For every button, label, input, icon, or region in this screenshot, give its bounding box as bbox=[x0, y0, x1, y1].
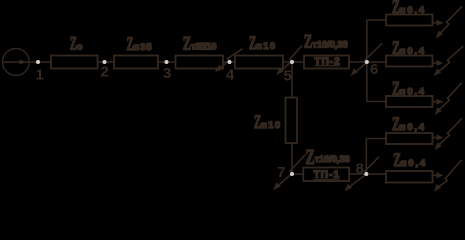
node 6 bbox=[365, 60, 379, 78]
svg-text:2: 2 bbox=[101, 64, 109, 81]
load block D bbox=[386, 133, 433, 144]
short-circuit bolt node 8 bbox=[345, 157, 380, 192]
svg-text:3: 3 bbox=[163, 65, 171, 82]
svg-text:8: 8 bbox=[356, 161, 364, 178]
load bolt C bbox=[434, 83, 461, 115]
branch stub D bbox=[366, 138, 386, 140]
short-circuit bolt node 7 bbox=[273, 155, 305, 191]
vertical wire node 5 down bbox=[291, 62, 293, 98]
label TP-2 bbox=[315, 56, 341, 67]
source G circle bbox=[3, 49, 30, 76]
svg-text:6: 6 bbox=[370, 61, 378, 78]
vertical wire node 8 branch bbox=[365, 139, 367, 175]
load bolt E bbox=[434, 160, 462, 192]
node 3 bbox=[163, 60, 171, 82]
vertical wire node 6 branches bbox=[366, 20, 368, 102]
arrow after block D bbox=[433, 135, 444, 141]
node 4 bbox=[226, 60, 235, 84]
substation box TP-2 bbox=[304, 56, 349, 69]
node 5 bbox=[284, 60, 295, 85]
substation box TP-1 bbox=[303, 168, 349, 182]
branch stub C bbox=[367, 101, 386, 103]
short-circuit bolt node 6 bbox=[350, 43, 382, 76]
resistor block Zl10 bbox=[235, 56, 283, 69]
load block A bbox=[386, 15, 433, 26]
svg-text:1: 1 bbox=[36, 67, 44, 84]
wire block Zt35/10 to block Zl10 bbox=[223, 61, 235, 63]
wire block Zc to block Zl35 bbox=[98, 61, 115, 63]
svg-text:4: 4 bbox=[226, 67, 235, 84]
node 8 bbox=[356, 161, 369, 178]
svg-text:7: 7 bbox=[277, 164, 285, 181]
node 1 bbox=[36, 60, 44, 84]
resistor block Zl35 bbox=[114, 56, 158, 69]
wire circle to block Zc bbox=[29, 61, 51, 63]
load block C bbox=[386, 96, 433, 107]
wire block Zl10 to TP-2 bbox=[283, 61, 304, 63]
load bolt D bbox=[434, 118, 461, 150]
vertical line block Zl10-2 bbox=[286, 98, 298, 144]
branch stub A bbox=[367, 19, 386, 21]
load bolt B bbox=[434, 46, 464, 76]
resistor block Zc bbox=[51, 56, 98, 69]
node 2 bbox=[101, 60, 109, 81]
transformer block Zt35/10 bbox=[176, 56, 224, 69]
load block E bbox=[386, 171, 433, 183]
label TP-1 bbox=[314, 169, 340, 180]
wire node 7 to TP-1 bbox=[292, 173, 303, 175]
arrow after block A bbox=[433, 20, 444, 26]
arrow after block B bbox=[433, 60, 444, 66]
svg-text:5: 5 bbox=[284, 68, 292, 85]
arrow after block C bbox=[433, 99, 444, 105]
short-circuit bolt node 4 bbox=[215, 49, 243, 72]
load block B bbox=[386, 56, 433, 67]
source arrow bbox=[20, 60, 27, 65]
node 7 bbox=[277, 164, 294, 181]
wire TP-1 to node 8 bbox=[349, 173, 386, 175]
wire block Zl35 to block Zt35/10 bbox=[158, 61, 176, 63]
short-circuit bolt node 5 bbox=[277, 46, 303, 76]
wire vertical block to node 7 bbox=[291, 143, 293, 174]
load bolt A bbox=[436, 6, 463, 38]
arrow after block E bbox=[433, 172, 444, 178]
wire TP-2 to node 6 bbox=[349, 61, 386, 63]
